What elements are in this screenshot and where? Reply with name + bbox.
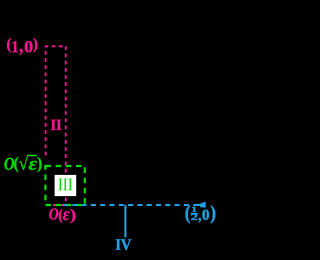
label O(sqrt(eps)) (4, 155, 41, 172)
label II (51, 120, 61, 130)
white box (55, 175, 77, 196)
label O(eps) (49, 208, 75, 223)
region II bottom edge (46, 204, 66, 206)
region III green dashed square (45, 166, 84, 205)
label III (58, 179, 72, 191)
comma (198, 218, 201, 223)
blue arrowhead (200, 202, 206, 208)
closing paren (211, 205, 216, 223)
fraction bar (191, 213, 198, 214)
label (1,0) (7, 38, 37, 55)
label (1/2,0) opening paren (186, 205, 191, 223)
fraction denominator 2 (191, 214, 198, 220)
region II left and top edges (46, 46, 66, 155)
region IV blue dashed line (63, 204, 199, 206)
region II right edge (65, 46, 67, 204)
blue tick (124, 205, 126, 237)
blue arrowhead tail (198, 204, 201, 206)
fraction numerator 1 (192, 207, 196, 212)
label IV (116, 239, 131, 250)
zero (202, 210, 209, 220)
radical overbar (27, 155, 36, 157)
